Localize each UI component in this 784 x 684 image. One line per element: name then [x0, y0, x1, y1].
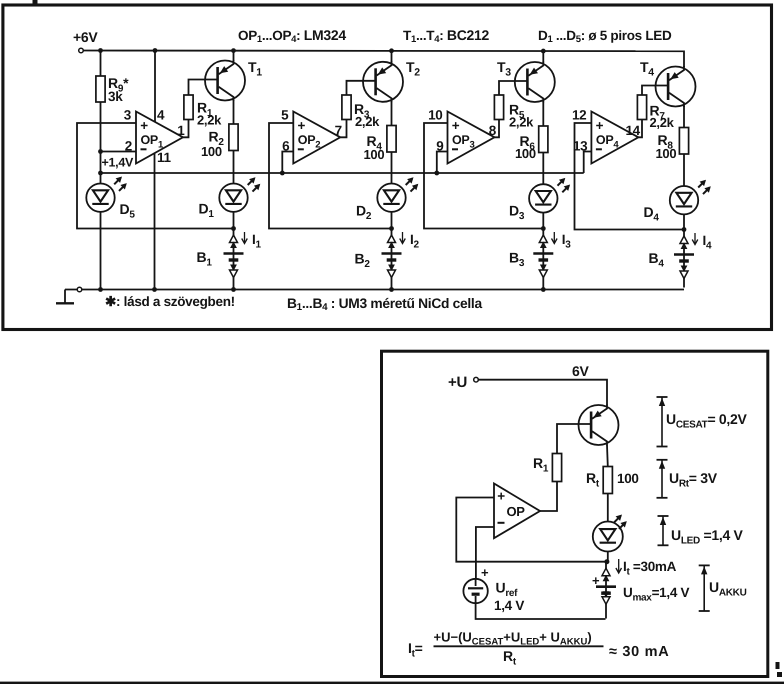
svg-text:T3: T3 — [497, 59, 511, 79]
svg-text:6V: 6V — [572, 363, 589, 379]
svg-text:✱: lásd a szövegben!: ✱: lásd a szövegben! — [105, 294, 235, 309]
svg-text:I4: I4 — [703, 233, 712, 252]
svg-text:UCESAT= 0,2V: UCESAT= 0,2V — [666, 411, 747, 431]
svg-text:4: 4 — [157, 108, 165, 123]
svg-text:T4: T4 — [640, 59, 654, 79]
svg-text:13: 13 — [573, 139, 588, 154]
svg-text:10: 10 — [428, 108, 442, 123]
svg-text:14: 14 — [625, 123, 640, 138]
svg-text:Rt: Rt — [503, 648, 517, 668]
svg-text:+: + — [452, 118, 460, 133]
svg-text:2,2k: 2,2k — [197, 113, 222, 128]
svg-text:+: + — [298, 118, 306, 133]
svg-text:D1: D1 — [199, 201, 215, 221]
svg-text:11: 11 — [157, 150, 171, 165]
svg-text:+1,4V: +1,4V — [102, 156, 134, 170]
svg-text:R1: R1 — [533, 455, 549, 475]
svg-text:ULED =1,4 V: ULED =1,4 V — [671, 527, 744, 547]
svg-text:100: 100 — [656, 146, 677, 161]
svg-text:B3: B3 — [509, 250, 525, 270]
svg-text:≈ 30 mA: ≈ 30 mA — [609, 644, 669, 660]
svg-text:2,2k: 2,2k — [509, 115, 534, 130]
svg-text:URt= 3V: URt= 3V — [669, 470, 718, 490]
svg-text:I1: I1 — [252, 232, 261, 251]
svg-text:T1...T4: BC212: T1...T4: BC212 — [403, 27, 489, 45]
svg-text:B1: B1 — [197, 249, 213, 269]
svg-text:100: 100 — [201, 144, 222, 159]
svg-text:1,4 V: 1,4 V — [494, 598, 524, 613]
svg-text:3k: 3k — [108, 89, 123, 104]
svg-text:8: 8 — [489, 123, 497, 138]
svg-text:+: + — [497, 489, 505, 504]
svg-text:D2: D2 — [356, 203, 372, 223]
svg-text:7: 7 — [335, 123, 342, 138]
svg-text:6: 6 — [282, 139, 290, 154]
svg-text:OP1...OP4: LM324: OP1...OP4: LM324 — [238, 27, 346, 45]
svg-text:T2: T2 — [406, 59, 420, 79]
svg-text:100: 100 — [617, 471, 639, 486]
svg-text:+: + — [592, 573, 600, 588]
svg-text:100: 100 — [515, 146, 536, 161]
svg-text:It=: It= — [408, 640, 423, 660]
svg-text:OP: OP — [507, 504, 526, 519]
svg-text:100: 100 — [364, 147, 385, 162]
svg-text:5: 5 — [281, 108, 289, 123]
svg-text:2,2k: 2,2k — [355, 114, 380, 129]
svg-text:Uref: Uref — [496, 580, 519, 600]
svg-text:Rt: Rt — [586, 470, 600, 490]
svg-text:3: 3 — [124, 108, 132, 123]
svg-text:+6V: +6V — [73, 29, 98, 45]
svg-text:UAKKU: UAKKU — [709, 579, 747, 599]
svg-text:12: 12 — [572, 108, 586, 123]
svg-text:B2: B2 — [355, 251, 371, 271]
svg-text:1: 1 — [177, 123, 185, 138]
svg-text:B4: B4 — [649, 250, 665, 270]
svg-text:9: 9 — [436, 139, 443, 154]
svg-text:It =30mA: It =30mA — [623, 559, 677, 578]
svg-text:D5: D5 — [120, 201, 136, 221]
svg-text:+: + — [481, 565, 489, 580]
svg-text:+: + — [140, 118, 148, 133]
svg-text:2,2k: 2,2k — [650, 115, 675, 130]
svg-text:I3: I3 — [562, 232, 571, 251]
svg-text:D1 ...D5: ø 5 piros LED: D1 ...D5: ø 5 piros LED — [538, 28, 672, 45]
svg-text:D3: D3 — [509, 203, 525, 223]
svg-text:Umax=1,4 V: Umax=1,4 V — [623, 585, 689, 604]
svg-text:B1...B4 : UM3 méretű NiCd ce: B1...B4 : UM3 méretű NiCd cella — [287, 296, 482, 313]
svg-text:T1: T1 — [248, 59, 262, 79]
svg-text:+U−(UCESAT+ULED+ UAKKU): +U−(UCESAT+ULED+ UAKKU) — [434, 630, 592, 648]
svg-text:D4: D4 — [644, 204, 660, 224]
svg-text:+U: +U — [448, 374, 467, 391]
svg-text:I2: I2 — [410, 232, 419, 251]
svg-text:+: + — [596, 118, 604, 133]
svg-text:2: 2 — [125, 139, 132, 154]
